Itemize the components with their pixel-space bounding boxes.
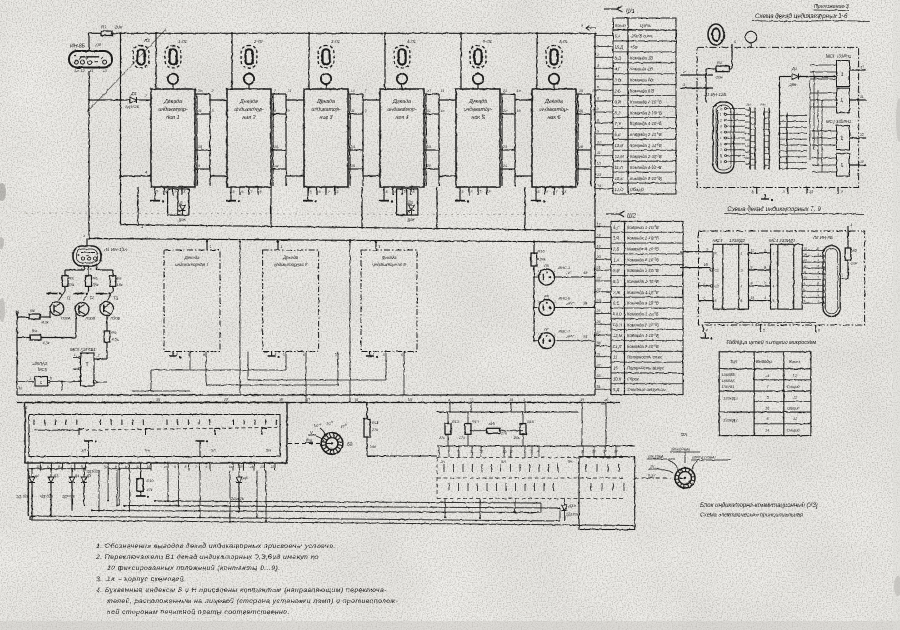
svg-text:Д9К: Д9К xyxy=(407,217,416,222)
svg-text:2: 2 xyxy=(773,269,775,273)
wire between decade 3 and 4 xyxy=(363,100,380,176)
wire drop 2 xyxy=(270,187,272,228)
frame bottom stubs xyxy=(752,188,845,195)
neon lamp Л7 xyxy=(533,327,595,349)
svg-text:2Д102Б: 2Д102Б xyxy=(39,495,54,499)
ground decade 9 xyxy=(366,352,378,359)
svg-text:Д9К: Д9К xyxy=(178,217,187,222)
decade 5 bottom pins xyxy=(460,187,491,195)
resistor R13 xyxy=(458,412,480,446)
svg-text:12: 12 xyxy=(804,264,808,268)
svg-text:3: 3 xyxy=(720,125,722,129)
svg-text:20: 20 xyxy=(426,164,431,168)
svg-text:С2: С2 xyxy=(715,284,719,288)
svg-text:1: 1 xyxy=(841,72,844,78)
decade block 1 xyxy=(151,84,195,187)
wire nest below decades xyxy=(132,239,404,403)
svg-text:МС5 136ТВ1: МС5 136ТВ1 xyxy=(70,347,96,352)
svg-text:Л4 ИН-15А: Л4 ИН-15А xyxy=(103,247,127,252)
svg-text:18к: 18к xyxy=(117,283,123,287)
IC output wires xyxy=(850,65,867,165)
svg-text:ная 6: ная 6 xyxy=(547,115,560,121)
resistor R8 xyxy=(15,309,50,325)
ground decade 6 xyxy=(531,195,545,203)
transistor T3 xyxy=(100,296,121,321)
svg-text:5: 5 xyxy=(74,353,76,357)
svg-text:R11: R11 xyxy=(372,421,379,425)
anode circle decade 3 xyxy=(321,74,331,89)
diode D8 xyxy=(230,463,249,513)
svg-text:МС3: МС3 xyxy=(713,238,723,243)
svg-text:3: 3 xyxy=(531,450,533,454)
lamp 6-Л1 xyxy=(546,39,568,68)
svg-text:7,Ж: 7,Ж xyxy=(613,290,620,295)
svg-text:140: 140 xyxy=(370,445,376,449)
decade block 7 xyxy=(164,250,220,352)
svg-text:16: 16 xyxy=(229,465,233,469)
wire feed decades 789 xyxy=(206,240,381,250)
svg-text:24: 24 xyxy=(502,164,507,168)
wire drop to decade 4 xyxy=(384,33,386,89)
connector pin numbers xyxy=(438,446,618,457)
ground decade 7 xyxy=(169,352,181,359)
svg-text:Общий: Общий xyxy=(787,429,800,433)
wire between decade 1 and 2 xyxy=(210,100,227,176)
svg-text:телей, расположенным на ли: телей, расположенным на лицевой (сторона… xyxy=(107,597,399,605)
svg-text:5: 5 xyxy=(335,353,337,357)
frame decades 1-6 xyxy=(697,47,859,187)
decade block 3 xyxy=(304,84,348,187)
table Sh1 xyxy=(613,18,676,194)
svg-text:Конт: Конт xyxy=(789,359,800,364)
svg-text:1: 1 xyxy=(841,136,844,142)
right bus xyxy=(594,33,596,395)
decade block 8 xyxy=(263,250,319,352)
svg-text:1: 1 xyxy=(83,234,85,238)
pin strip right of decade 2 xyxy=(271,89,291,186)
svg-text:индикаторная 9: индикаторная 9 xyxy=(372,262,406,267)
svg-text:0,1V: 0,1V xyxy=(648,474,656,478)
svg-text:4,3к: 4,3к xyxy=(42,321,49,325)
svg-text:Но: Но xyxy=(761,103,766,107)
anode circle decade 6 xyxy=(549,74,559,89)
IC MC5 136TV1 xyxy=(70,347,107,386)
svg-text:R2: R2 xyxy=(852,248,858,253)
svg-text:8: 8 xyxy=(184,190,186,194)
svg-text:10: 10 xyxy=(274,145,278,149)
svg-text:4,Г: 4,Г xyxy=(613,225,619,230)
svg-text:ИН-8Б: ИН-8Б xyxy=(70,44,86,50)
svg-text:R15: R15 xyxy=(527,420,535,424)
svg-text:1-Л1: 1-Л1 xyxy=(178,39,187,44)
svg-text:15: 15 xyxy=(517,89,521,93)
MC3 left stubs xyxy=(680,246,713,301)
resistor R10 xyxy=(136,471,154,499)
svg-text:1: 1 xyxy=(720,113,722,117)
svg-text:7: 7 xyxy=(448,450,450,454)
svg-text:1: 1 xyxy=(379,245,381,249)
resistor R6 xyxy=(86,266,99,287)
svg-text:136ЛА6,: 136ЛА6, xyxy=(722,373,736,377)
svg-text:5: 5 xyxy=(720,136,722,140)
IC MC1 xyxy=(826,54,851,113)
svg-text:2: 2 xyxy=(523,450,526,454)
svg-text:5Л: 5Л xyxy=(211,448,216,453)
tube L1 IN-12B xyxy=(703,92,734,173)
svg-text:5: 5 xyxy=(188,353,190,357)
svg-text:11: 11 xyxy=(597,151,601,155)
rotary switch V2 xyxy=(288,420,353,454)
lamp 4-Л1 xyxy=(394,39,416,68)
svg-text:10 фиксированных положений: 10 фиксированных положений (контакты 0..… xyxy=(107,564,281,572)
svg-text:12: 12 xyxy=(592,450,596,454)
svg-text:24: 24 xyxy=(596,298,601,302)
decade 2 bottom pins xyxy=(231,187,262,195)
svg-text:11: 11 xyxy=(198,109,202,113)
svg-text:2Д102Б: 2Д102Б xyxy=(61,495,76,499)
svg-text:12,М: 12,М xyxy=(615,154,625,159)
svg-text:1: 1 xyxy=(307,84,309,88)
left edge bus xyxy=(16,311,18,395)
svg-text:13: 13 xyxy=(804,258,808,262)
resistor R7 xyxy=(89,25,123,36)
svg-text:4: 4 xyxy=(176,352,178,356)
pin numbers bottom border xyxy=(156,398,609,402)
svg-text:1: 1 xyxy=(841,98,844,104)
svg-text:индикаторная 8: индикаторная 8 xyxy=(274,262,308,267)
svg-text:13,Н: 13,Н xyxy=(613,322,622,327)
svg-text:10,К: 10,К xyxy=(613,376,622,381)
wires MC3 to MC4 xyxy=(749,248,771,300)
decade block 6 xyxy=(532,84,576,187)
svg-text:6-Л1: 6-Л1 xyxy=(559,39,568,44)
svg-text:2: 2 xyxy=(211,89,214,93)
svg-text:Декада: Декада xyxy=(316,99,335,105)
svg-text:Ш2: Ш2 xyxy=(627,214,637,220)
svg-text:26: 26 xyxy=(578,109,583,113)
svg-text:Д2: Д2 xyxy=(34,474,41,478)
svg-text:10: 10 xyxy=(597,140,601,144)
svg-text:„V“: „V“ xyxy=(565,270,572,275)
svg-text:3,В: 3,В xyxy=(613,236,619,241)
svg-text:-250 В сигн.: -250 В сигн. xyxy=(630,34,653,39)
wire between decade 5 and 6 xyxy=(515,100,532,176)
svg-text:Д8: Д8 xyxy=(242,476,249,480)
svg-text:2: 2 xyxy=(97,354,100,358)
tube L3 IN-8B xyxy=(69,33,112,73)
svg-text:1000V(100мА): 1000V(100мА) xyxy=(692,456,716,460)
svg-text:1: 1 xyxy=(459,84,461,88)
svg-text:8: 8 xyxy=(751,281,753,285)
svg-text:Цепь: Цепь xyxy=(640,23,652,28)
svg-text:20к: 20к xyxy=(715,75,723,80)
svg-text:6: 6 xyxy=(319,190,321,194)
svg-text:19: 19 xyxy=(198,145,202,149)
svg-text:4,5к: 4,5к xyxy=(112,338,119,342)
svg-text:20к: 20к xyxy=(114,25,123,30)
svg-text:12: 12 xyxy=(751,248,755,252)
svg-text:136ЛА3,: 136ЛА3, xyxy=(722,379,736,383)
svg-text:18: 18 xyxy=(597,233,601,237)
svg-text:2,Б: 2,Б xyxy=(612,246,619,251)
svg-text:6: 6 xyxy=(303,353,305,357)
IC MC3 xyxy=(710,238,748,309)
svg-text:14: 14 xyxy=(597,184,601,188)
ground decade 4 xyxy=(379,195,393,203)
decade block 2 xyxy=(227,84,271,187)
svg-text:11: 11 xyxy=(288,89,292,93)
svg-text:Полярность плюс: Полярность плюс xyxy=(627,355,663,360)
svg-text:13: 13 xyxy=(860,160,864,164)
ground decade 3 xyxy=(303,195,317,203)
connector Sh2 label xyxy=(606,211,637,220)
svg-text:10: 10 xyxy=(503,450,507,454)
resistor R11 xyxy=(364,403,437,457)
mid bus 1 xyxy=(120,224,595,231)
strip No xyxy=(761,103,769,170)
svg-text:Д6: Д6 xyxy=(130,91,137,96)
svg-text:19: 19 xyxy=(597,244,601,248)
table Sh2 xyxy=(611,221,683,394)
svg-text:4: 4 xyxy=(29,377,31,381)
rotary switch V3 xyxy=(635,432,731,488)
svg-text:2. Переключатели В1 декад: 2. Переключатели В1 декад индикаторных 2… xyxy=(95,553,319,561)
svg-text:Декада: Декада xyxy=(163,99,182,105)
svg-text:14,О: 14,О xyxy=(613,311,623,316)
svg-text:20к: 20к xyxy=(850,261,858,266)
svg-text:6,Е: 6,Е xyxy=(613,301,619,306)
svg-text:4: 4 xyxy=(538,450,540,454)
switch block V1 xyxy=(23,403,287,464)
svg-text:Декада: Декада xyxy=(282,255,298,260)
svg-text:5: 5 xyxy=(386,190,388,194)
anode circle decade 2 xyxy=(244,74,254,89)
doc title line 2 xyxy=(700,513,803,519)
svg-text:Л6: Л6 xyxy=(543,294,550,299)
svg-text:6: 6 xyxy=(50,377,52,381)
svg-text:1: 1 xyxy=(281,245,283,249)
svg-text:5: 5 xyxy=(538,190,540,194)
doc title line 1 xyxy=(700,502,818,509)
svg-text:МС4 133ИД1: МС4 133ИД1 xyxy=(769,238,796,243)
svg-text:С1: С1 xyxy=(715,269,719,273)
svg-text:индикатор-: индикатор- xyxy=(387,107,416,113)
pin stub 2 xyxy=(680,69,713,75)
svg-text:0: 0 xyxy=(720,107,722,111)
svg-text:21: 21 xyxy=(502,89,507,93)
crease line xyxy=(87,29,166,112)
svg-text:R4: R4 xyxy=(32,330,37,334)
IC MC2 xyxy=(826,119,851,176)
svg-text:12: 12 xyxy=(860,133,864,137)
svg-text:133ИД2: 133ИД2 xyxy=(729,238,746,243)
svg-text:28: 28 xyxy=(596,342,601,346)
svg-text:Сброс: Сброс xyxy=(627,376,640,381)
pin row under V1 xyxy=(29,463,275,471)
svg-text:11: 11 xyxy=(469,398,473,402)
svg-text:6: 6 xyxy=(471,190,473,194)
svg-text:8: 8 xyxy=(458,450,460,454)
svg-text:1: 1 xyxy=(141,224,143,229)
mid bottom border xyxy=(17,395,620,403)
svg-text:27к: 27к xyxy=(458,436,465,440)
svg-text:R16: R16 xyxy=(538,250,546,254)
svg-text:4. Буквенные индексы В и Н: 4. Буквенные индексы В и Н присвоены кон… xyxy=(96,586,387,594)
diode Д2 xyxy=(29,468,40,521)
svg-text:20к: 20к xyxy=(513,436,520,440)
svg-text:1: 1 xyxy=(734,39,736,44)
anode circle decade 5 xyxy=(473,74,483,89)
svg-text:11: 11 xyxy=(510,450,514,454)
svg-text:14: 14 xyxy=(351,145,355,149)
svg-text:ная 1: ная 1 xyxy=(166,115,179,121)
ground decade 8 xyxy=(268,352,280,359)
svg-text:2Д102Б: 2Д102Б xyxy=(86,470,101,474)
lamp feed wire xyxy=(533,266,535,341)
svg-text:8: 8 xyxy=(741,299,743,303)
svg-text:ная 5: ная 5 xyxy=(471,115,484,121)
svg-text:100к(10мА): 100к(10мА) xyxy=(671,448,690,452)
svg-text:1. Обозначения выводов дек: 1. Обозначения выводов декад индикаторны… xyxy=(96,542,336,550)
svg-text:133ИД2: 133ИД2 xyxy=(723,396,738,401)
svg-text:11: 11 xyxy=(860,95,864,99)
svg-text:Выводы: Выводы xyxy=(756,359,772,364)
svg-text:3: 3 xyxy=(706,248,708,252)
svg-text:5-Л1: 5-Л1 xyxy=(483,39,492,44)
svg-text:4,3к: 4,3к xyxy=(43,341,50,345)
svg-text:4: 4 xyxy=(373,352,375,356)
svg-text:27к: 27к xyxy=(500,432,507,436)
svg-text:9: 9 xyxy=(751,266,753,270)
lamp 5-Л1 xyxy=(470,39,492,68)
transistor T2 xyxy=(75,295,95,320)
svg-text:Общий: Общий xyxy=(630,187,644,192)
svg-text:П30В: П30В xyxy=(86,317,96,321)
svg-text:3: 3 xyxy=(764,248,766,252)
lamp cutout L3 xyxy=(133,38,150,68)
svg-text:R14: R14 xyxy=(488,422,495,426)
svg-text:8: 8 xyxy=(597,118,599,122)
svg-text:23: 23 xyxy=(596,288,601,292)
resistor R4 xyxy=(15,311,76,345)
svg-text:13: 13 xyxy=(597,173,601,177)
svg-text:5: 5 xyxy=(157,190,159,194)
svg-text:9: 9 xyxy=(720,160,722,164)
svg-text:Т1: Т1 xyxy=(66,296,71,301)
svg-text:R10: R10 xyxy=(147,479,155,483)
svg-text:8: 8 xyxy=(185,465,187,469)
svg-text:индикатор-: индикатор- xyxy=(539,107,568,113)
svg-text:Тип: Тип xyxy=(730,359,738,364)
svg-text:6: 6 xyxy=(203,353,205,357)
svg-text:11: 11 xyxy=(804,270,807,274)
svg-text:1: 1 xyxy=(383,84,385,88)
neon lamp Л5 xyxy=(533,263,595,285)
ground decade 1 xyxy=(150,195,164,203)
resistor R1 xyxy=(706,44,732,102)
ground mid right xyxy=(701,332,713,340)
svg-text:П30А: П30А xyxy=(61,317,71,321)
wire top bus xyxy=(122,32,595,34)
svg-text:6,А: 6,А xyxy=(615,34,621,39)
svg-text:Ш1: Ш1 xyxy=(626,9,635,15)
svg-text:4,Г: 4,Г xyxy=(615,67,621,72)
pin strip right of decade 5 xyxy=(500,89,521,186)
svg-text:„мА“: „мА“ xyxy=(565,334,575,339)
svg-text:5Н: 5Н xyxy=(568,460,573,464)
connector wafers xyxy=(437,458,624,499)
wires strip routing xyxy=(745,110,750,164)
svg-text:4: 4 xyxy=(706,329,708,333)
svg-text:25: 25 xyxy=(596,309,601,313)
svg-text:22: 22 xyxy=(502,109,507,113)
svg-text:Л5: Л5 xyxy=(543,263,550,268)
svg-text:14: 14 xyxy=(274,164,278,168)
wire drop 4 xyxy=(436,187,438,230)
bar contact 1 xyxy=(46,286,65,300)
svg-text:Команда 8 В: Команда 8 В xyxy=(630,88,654,93)
svg-text:6: 6 xyxy=(242,190,244,194)
svg-text:47к: 47к xyxy=(147,488,153,492)
bar contact 3 xyxy=(96,286,113,300)
svg-text:R7: R7 xyxy=(101,25,107,30)
svg-text:12: 12 xyxy=(860,65,864,69)
svg-text:7,Ж: 7,Ж xyxy=(615,121,622,126)
svg-text:13: 13 xyxy=(260,465,264,469)
svg-text:3,В: 3,В xyxy=(615,77,621,82)
svg-text:16: 16 xyxy=(517,109,521,113)
svg-text:15,Д: 15,Д xyxy=(615,45,624,50)
svg-text:33: 33 xyxy=(597,374,601,378)
svg-text:22: 22 xyxy=(596,277,601,281)
svg-text:1: 1 xyxy=(210,245,212,249)
svg-text:ной сторонам печатной пл: ной сторонам печатной платы соответствен… xyxy=(107,608,290,616)
svg-text:8,З: 8,З xyxy=(615,110,621,115)
svg-text:15: 15 xyxy=(613,366,618,371)
IC 136LA3 MC5 xyxy=(17,361,81,391)
svg-text:5: 5 xyxy=(383,353,385,357)
svg-text:2: 2 xyxy=(596,53,599,57)
svg-text:индикаторная 7: индикаторная 7 xyxy=(175,262,209,267)
svg-text:8: 8 xyxy=(365,109,367,113)
svg-text:14: 14 xyxy=(804,252,808,256)
svg-text:1Л: 1Л xyxy=(81,448,86,453)
anode circle decade 4 xyxy=(397,74,407,89)
svg-text:27к: 27к xyxy=(371,428,378,432)
svg-text:Т2: Т2 xyxy=(90,295,96,300)
svg-text:6: 6 xyxy=(597,97,599,101)
svg-text:индикатор-: индикатор- xyxy=(463,107,492,113)
bus above connector xyxy=(437,403,578,414)
svg-text:1: 1 xyxy=(851,223,853,227)
resistor R9b xyxy=(94,315,119,359)
lamp 1-Л1 xyxy=(165,39,187,68)
svg-text:1: 1 xyxy=(230,84,232,88)
wire drop to decade 3 xyxy=(308,33,310,89)
mid bus 2 xyxy=(88,237,595,242)
svg-text:R12: R12 xyxy=(452,420,459,424)
lamp cutout top right xyxy=(708,24,724,45)
svg-text:12,М: 12,М xyxy=(613,333,623,338)
svg-text:32: 32 xyxy=(597,363,601,367)
svg-text:8: 8 xyxy=(274,109,276,113)
diode Д5 xyxy=(81,468,92,506)
tube L1 digit pins xyxy=(719,107,745,164)
svg-text:1V: 1V xyxy=(650,465,655,469)
title schema 7-9 xyxy=(724,206,864,215)
IC input routing xyxy=(810,65,837,172)
wire drop to decade 1 xyxy=(155,33,157,89)
